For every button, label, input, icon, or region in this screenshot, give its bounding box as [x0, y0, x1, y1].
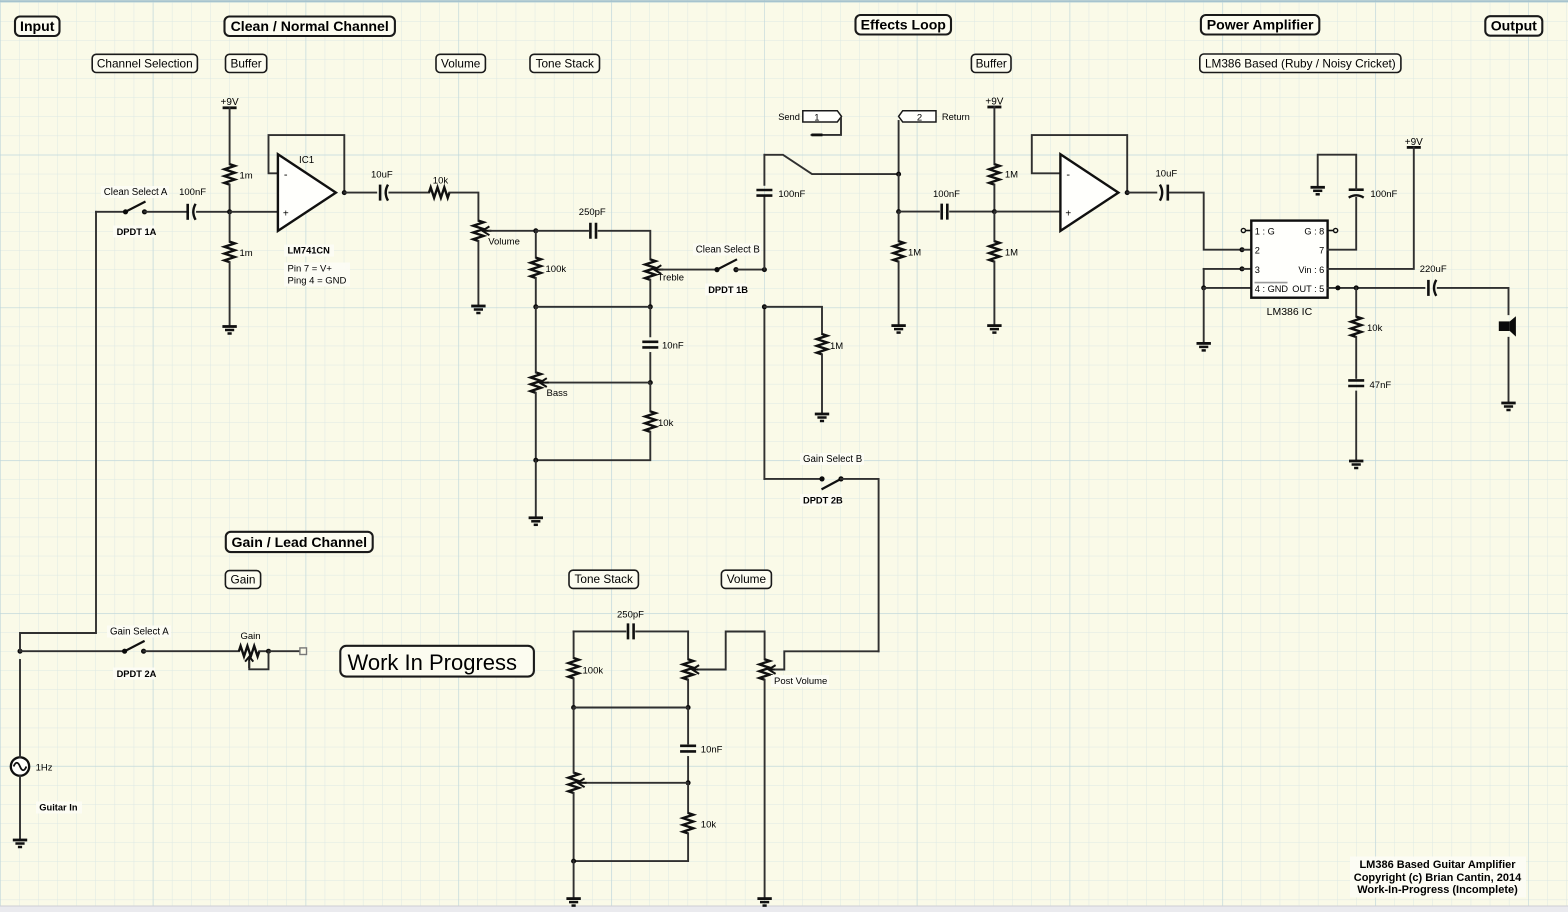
potentiometer Bass: [531, 372, 541, 392]
wire pin 4 lead: [1204, 287, 1252, 289]
IC LM386 body: [1251, 221, 1327, 298]
op-amp U2 (effects buffer): [1060, 154, 1118, 231]
node mid-left: [533, 304, 538, 309]
section label Tone Stack: [569, 570, 638, 588]
wire tap to R 1M: [764, 307, 822, 334]
capacitor 10uF (power coupling): [1167, 185, 1170, 201]
svg-text:LM386 Based Guitar Amplifier: LM386 Based Guitar Amplifier: [1359, 859, 1516, 871]
svg-text:DPDT 2B: DPDT 2B: [803, 496, 843, 506]
svg-text:Copyright (c) Brian Cantin, 20: Copyright (c) Brian Cantin, 2014: [1354, 872, 1522, 884]
pin label 4 : GND with overline: [1255, 282, 1288, 284]
svg-text:Volume: Volume: [727, 572, 767, 586]
switch DPDT 1A (Clean Select A): [126, 202, 146, 212]
svg-text:LM741CN: LM741CN: [288, 246, 331, 256]
svg-text:250pF: 250pF: [579, 207, 606, 218]
resistor 1m (lower bias): [224, 242, 234, 262]
wire bass node to R 10k: [649, 383, 651, 412]
voltage source V1 1Hz (Guitar In): [11, 757, 29, 775]
svg-text:Gain Select B: Gain Select B: [803, 454, 862, 465]
node mid-right: [648, 304, 653, 309]
wire pin 4 to ground: [1203, 288, 1205, 344]
svg-text:100nF: 100nF: [1370, 189, 1397, 200]
ground (zobel): [1349, 460, 1363, 463]
svg-text:1M: 1M: [830, 341, 843, 352]
svg-text:47nF: 47nF: [1370, 380, 1392, 391]
resistor 1M (bias upper): [989, 164, 999, 184]
switch DPDT 2A (Gain Select A): [125, 641, 145, 651]
potentiometer Bass (gain): [568, 773, 578, 793]
wire send rail to return junction: [764, 155, 898, 174]
node OUT b: [1354, 285, 1359, 290]
label Post Volume: [771, 675, 829, 687]
wire gain wiper loop: [249, 651, 268, 669]
svg-text:Output: Output: [1491, 18, 1537, 34]
speaker SP1: [1499, 321, 1510, 331]
wire op-amp2 feedback loop: [1032, 135, 1127, 193]
node input junction: [18, 649, 23, 654]
label Gain Select A: [107, 626, 171, 638]
ground (volume): [471, 305, 485, 308]
wire input to Clean Select A: [20, 212, 96, 651]
label LM741CN: [284, 245, 334, 257]
pin 1 open circle: [1246, 230, 1252, 232]
wire mid wiper to Post Volume top: [699, 632, 765, 670]
svg-text:Clean Select B: Clean Select B: [696, 245, 760, 256]
svg-text:100nF: 100nF: [179, 187, 206, 198]
svg-text:100nF: 100nF: [778, 189, 805, 200]
svg-text:Clean / Normal Channel: Clean / Normal Channel: [231, 18, 389, 34]
svg-text:Treble: Treble: [658, 273, 685, 284]
svg-text:100nF: 100nF: [933, 189, 960, 200]
svg-text:3: 3: [1255, 265, 1260, 275]
wire C 100nF to node: [763, 196, 765, 270]
svg-text:Input: Input: [20, 18, 55, 34]
wire rail to R 100k: [573, 631, 575, 658]
label DPDT 1B: [705, 284, 747, 296]
svg-text:10nF: 10nF: [701, 745, 723, 756]
wire Gain pot to node: [259, 650, 268, 652]
label Clean Select A: [101, 186, 169, 198]
svg-text:Guitar In: Guitar In: [39, 803, 78, 813]
wire OUT to R 10k: [1355, 288, 1357, 317]
node OUT a: [1335, 285, 1340, 290]
node buffer2 input: [992, 209, 997, 214]
wire OUT pin 5 to C 220uF: [1328, 287, 1425, 289]
wire C 100nF to ground bracket: [1318, 155, 1357, 190]
switch DPDT 1B (Clean Select B): [717, 259, 737, 269]
svg-text:G : 8: G : 8: [1304, 226, 1324, 236]
svg-text:+9V: +9V: [1405, 137, 1423, 148]
node return junction: [896, 172, 901, 177]
section label LM386 Based (Ruby / Noisy Cricket): [1200, 54, 1401, 73]
pin 8 open circle: [1328, 230, 1334, 232]
wire switch to C 100nF: [145, 211, 186, 213]
send port pin stub: [812, 133, 823, 136]
wire R 1M to ground: [898, 262, 900, 326]
wire R 10k to C 47nF: [1355, 337, 1357, 378]
label Pin 7 = V+: [284, 263, 350, 287]
wire pin 3 stub: [1242, 268, 1251, 270]
node bass wiper rail: [648, 380, 653, 385]
svg-text:Post Volume: Post Volume: [774, 676, 827, 687]
switch DPDT 2B (Gain Select B): [822, 479, 842, 490]
section label Tone Stack: [530, 54, 600, 72]
svg-text:DPDT 2A: DPDT 2A: [117, 669, 157, 679]
ground (bias): [987, 324, 1001, 327]
svg-text:2: 2: [917, 112, 922, 123]
wire return port down: [898, 121, 900, 174]
wire C 100nF to bias node: [950, 211, 994, 213]
svg-text:Bass: Bass: [547, 388, 568, 399]
svg-text:Work-In-Progress (Incomplete): Work-In-Progress (Incomplete): [1357, 884, 1518, 896]
+9V supply (effects buffer): [987, 106, 1001, 109]
label DPDT 1A: [113, 226, 155, 238]
svg-text:Buffer: Buffer: [230, 56, 261, 70]
wire Treble pot to mid node: [649, 280, 651, 307]
Work In Progress box: [340, 646, 534, 677]
wire node to R 1M: [898, 212, 900, 242]
wire R 1m to ground: [229, 262, 231, 326]
+9V supply (power amp): [1407, 146, 1421, 149]
ground (input): [13, 839, 27, 842]
svg-text:-: -: [284, 169, 288, 181]
svg-text:LM386 IC: LM386 IC: [1267, 306, 1313, 318]
capacitor 10nF (gain bass): [680, 746, 696, 752]
gain pot wiper arrow: [248, 657, 250, 668]
wire +9V to Vin pin 6: [1328, 147, 1414, 269]
node gain mid-right: [686, 705, 691, 710]
node gain out: [266, 649, 271, 654]
wire switch DPDT 1B to send node: [736, 269, 764, 271]
wire R 10k to bottom rail: [574, 833, 689, 861]
wire C 100nF to node: [197, 211, 230, 213]
label DPDT 2A: [113, 668, 155, 680]
svg-text:+: +: [1065, 208, 1071, 219]
svg-text:1m: 1m: [240, 248, 253, 259]
wire node to R 1m lower: [229, 212, 231, 242]
section label Effects Loop: [856, 15, 952, 35]
node IC1 output: [342, 190, 347, 195]
wire pin 3 to pin 4 rail: [1204, 268, 1242, 270]
svg-text:100k: 100k: [583, 666, 604, 677]
resistor 10k (zobel): [1351, 317, 1361, 337]
node tone stack bottom: [533, 458, 538, 463]
svg-text:Gain: Gain: [241, 631, 261, 642]
svg-text:Vin : 6: Vin : 6: [1298, 265, 1324, 275]
svg-text:250pF: 250pF: [617, 610, 644, 621]
capacitor 250pF (gain treble): [628, 623, 634, 639]
section label Volume: [721, 570, 771, 588]
wire Bass pot to bottom rail: [535, 393, 537, 460]
wire bottom rail to ground: [573, 861, 575, 899]
svg-text:Channel Selection: Channel Selection: [97, 56, 193, 70]
section label Power Amplifier: [1201, 15, 1319, 35]
wire C 100nF up to send rail: [763, 155, 765, 185]
wire to switch DPDT 1A: [96, 211, 126, 213]
wire node to C 250pF: [536, 230, 588, 232]
node gain tone bottom: [571, 859, 576, 864]
svg-text:1M: 1M: [1005, 170, 1018, 181]
wire input node to DPDT 2A: [20, 650, 125, 652]
svg-text:1m: 1m: [240, 171, 253, 182]
wire pin 2 stub: [1242, 249, 1251, 251]
svg-text:10k: 10k: [701, 820, 717, 831]
wire R 100k to node: [573, 678, 575, 707]
svg-text:IC1: IC1: [299, 155, 314, 166]
wire pin 7 to C 100nF: [1328, 198, 1357, 250]
node buffer input: [227, 209, 232, 214]
svg-text:Return: Return: [942, 112, 970, 122]
wire gain mid rail: [574, 707, 689, 709]
svg-text:Volume: Volume: [441, 56, 481, 70]
wire R 10k to Volume pot: [449, 193, 478, 221]
port flag 2 (Return): [899, 111, 936, 122]
resistor 1M (return load): [893, 241, 903, 261]
wire C 250pF to Treble pot: [599, 231, 651, 260]
capacitor 10nF (bass): [642, 342, 658, 348]
wire bias node to R 1M lower: [993, 212, 995, 242]
section label Clean / Normal Channel: [225, 17, 395, 37]
potentiometer Gain: [239, 646, 259, 656]
svg-text:4 : GND: 4 : GND: [1255, 284, 1289, 294]
node clean channel out: [762, 267, 767, 272]
wire switch to Gain pot: [144, 650, 239, 652]
wire op-amp2 out to C 10uF: [1127, 192, 1156, 194]
section label Gain: [225, 571, 260, 589]
node pin 3: [1240, 266, 1245, 271]
section label Buffer: [226, 54, 267, 72]
ground (post volume): [757, 897, 771, 900]
svg-text:1: 1: [814, 112, 819, 123]
svg-text:2: 2: [1255, 246, 1260, 256]
section label Buffer: [971, 54, 1011, 72]
node pin 4 ground rail: [1201, 285, 1206, 290]
svg-text:10k: 10k: [433, 175, 449, 186]
svg-text:10uF: 10uF: [371, 169, 393, 180]
svg-text:100k: 100k: [546, 264, 567, 275]
svg-text:DPDT 1A: DPDT 1A: [117, 227, 157, 237]
wire R 1m to node: [229, 185, 231, 212]
section label Channel Selection: [92, 54, 197, 72]
svg-text:Gain: Gain: [231, 572, 256, 586]
ground (channel load): [815, 413, 829, 416]
wire Volume pot to ground: [477, 241, 479, 306]
wire C 220uF to speaker: [1438, 288, 1509, 314]
svg-text:1M: 1M: [1005, 248, 1018, 259]
wire C 10nF to bass node: [649, 353, 651, 383]
potentiometer Volume (clean): [473, 221, 483, 241]
node return bias: [896, 209, 901, 214]
section label Volume: [436, 54, 485, 72]
svg-text:Buffer: Buffer: [976, 56, 1007, 70]
svg-text:Work In Progress: Work In Progress: [348, 650, 518, 675]
svg-text:10uF: 10uF: [1156, 169, 1178, 180]
svg-text:220uF: 220uF: [1420, 264, 1447, 275]
capacitor 100nF (bypass): [1349, 188, 1364, 191]
wire top rail to C 250pF: [574, 630, 626, 632]
wire C 250pF to right rail: [636, 630, 688, 632]
section label Gain / Lead Channel: [226, 532, 373, 552]
wire R 100k to mid node: [535, 278, 537, 307]
label Guitar In: [36, 802, 82, 814]
svg-text:Ping 4 = GND: Ping 4 = GND: [288, 276, 347, 287]
wire speaker to ground: [1508, 338, 1510, 403]
svg-text:1 : G: 1 : G: [1255, 226, 1275, 236]
svg-text:10k: 10k: [1367, 323, 1383, 334]
svg-text:DPDT 1B: DPDT 1B: [708, 285, 748, 295]
wire bias node to op-amp2 +: [994, 211, 1060, 213]
svg-text:Clean Select A: Clean Select A: [104, 187, 168, 198]
svg-text:-: -: [1066, 169, 1070, 181]
wire source to input node: [19, 660, 21, 757]
wire gain node to open terminal: [269, 650, 300, 652]
section label Input: [15, 17, 60, 37]
node op-amp2 output: [1125, 190, 1130, 195]
wire DPDT 2B to post volume: [841, 479, 879, 651]
+9V supply (buffer): [223, 106, 237, 109]
capacitor 100nF (send coupling): [756, 190, 772, 196]
wire R 1M to ground: [821, 354, 823, 414]
capacitor 250pF (treble): [590, 223, 596, 239]
ground (bypass): [1311, 186, 1325, 189]
wire C 10uF to LM386 pin 2: [1170, 193, 1242, 250]
wire send port lead: [812, 118, 842, 135]
wire R 1M to bias node: [993, 185, 995, 212]
ground (return): [891, 324, 905, 327]
wire R 1M to ground: [993, 262, 995, 326]
port flag 1 (Send): [803, 111, 842, 122]
svg-text:Effects Loop: Effects Loop: [861, 16, 947, 32]
ground (speaker): [1501, 402, 1515, 405]
wire Mid pot to node: [687, 680, 689, 708]
svg-text:10nF: 10nF: [662, 341, 684, 352]
svg-text:+9V: +9V: [221, 97, 239, 108]
potentiometer Treble: [645, 259, 655, 279]
wire mid rail: [536, 306, 651, 308]
wire IC1 output to C 10uF: [344, 192, 376, 194]
wire node to C 10nF: [687, 708, 689, 744]
wire bottom rail to ground: [535, 460, 537, 518]
wire node to C 100nF: [899, 211, 939, 213]
svg-text:1Hz: 1Hz: [36, 762, 53, 773]
wire Volume wiper to tone stack: [489, 230, 535, 232]
ground (LM386 pins 3-4): [1197, 342, 1211, 345]
wire +9V to R 1m: [229, 108, 231, 164]
node gain mid-left: [571, 705, 576, 710]
label Gain Select B: [800, 453, 864, 465]
svg-text:+: +: [283, 208, 289, 219]
wire Post Volume wiper to DPDT 2B: [776, 651, 879, 669]
wire return node down: [898, 174, 900, 212]
svg-text:Gain / Lead Channel: Gain / Lead Channel: [232, 534, 367, 550]
node effects send tap: [762, 304, 767, 309]
resistor 10k (tone bottom): [645, 411, 655, 431]
wire C 47nF to ground: [1355, 392, 1357, 461]
svg-text:Power Amplifier: Power Amplifier: [1207, 16, 1314, 32]
svg-text:Tone Stack: Tone Stack: [575, 572, 633, 586]
wire source to ground: [19, 776, 21, 840]
ground (gain tone stack): [566, 897, 580, 900]
wire gain bass wiper rail: [585, 782, 689, 784]
node gain bass rail: [686, 780, 691, 785]
wire mid node to Bass pot: [535, 307, 537, 373]
resistor 1M (bias lower): [989, 241, 999, 261]
svg-text:Tone Stack: Tone Stack: [536, 56, 594, 70]
potentiometer Post Volume: [759, 659, 769, 679]
resistor 100k (gain tone): [568, 658, 578, 678]
wire C 10nF to node: [687, 757, 689, 783]
resistor 1M (channel load): [817, 334, 827, 354]
wire to switch DPDT 2B: [764, 478, 822, 480]
svg-text:Gain Select A: Gain Select A: [110, 627, 169, 638]
capacitor 220uF (speaker coupling): [1427, 280, 1430, 296]
resistor 1m (upper bias): [224, 164, 234, 184]
capacitor 100nF (return coupling): [942, 204, 948, 220]
wire node to Bass pot: [573, 708, 575, 773]
capacitor 10uF (coupling): [379, 185, 382, 201]
wire rail to Mid pot: [687, 631, 689, 659]
node tone stack top-left: [533, 228, 538, 233]
wire bass wiper rail with arrow: [547, 382, 651, 384]
wire Treble wiper to switch: [661, 269, 717, 271]
label Clean Select B: [693, 244, 761, 256]
svg-text:10k: 10k: [658, 418, 674, 429]
label DPDT 2B: [800, 494, 842, 506]
resistor 10k (series): [429, 187, 449, 197]
svg-text:OUT : 5: OUT : 5: [1292, 284, 1324, 294]
wire bass node to R 10k: [687, 783, 689, 813]
svg-text:LM386 Based (Ruby / Noisy Cric: LM386 Based (Ruby / Noisy Cricket): [1205, 56, 1396, 70]
resistor 10k (gain tone bottom): [683, 813, 693, 833]
resistor 100k (tone): [531, 258, 541, 278]
ground (tone stack): [529, 516, 543, 519]
open terminal (unconnected): [300, 648, 307, 655]
wire node to R 100k: [535, 231, 537, 258]
svg-text:7: 7: [1319, 246, 1324, 256]
wire mid node to C 10nF: [649, 307, 651, 337]
wire Bass pot to bottom rail: [573, 793, 575, 861]
svg-text:Send: Send: [778, 112, 800, 122]
label footer title block: [1350, 857, 1526, 898]
section label Output: [1485, 16, 1542, 36]
node pin 2: [1240, 247, 1245, 252]
op-amp IC1 LM741CN: [278, 154, 336, 231]
capacitor 47nF (zobel): [1348, 380, 1364, 386]
ground (buffer bias): [222, 325, 236, 328]
svg-text:+9V: +9V: [985, 96, 1003, 107]
svg-text:Volume: Volume: [488, 237, 520, 248]
wire R 10k to bottom rail: [536, 432, 651, 460]
potentiometer Mid (gain): [683, 659, 693, 679]
svg-text:Pin 7 = V+: Pin 7 = V+: [288, 264, 333, 275]
wire Post Volume to ground: [764, 680, 766, 899]
wire pin3 down to pin4 node: [1203, 269, 1205, 288]
wire +9V to R 1M upper: [993, 107, 995, 164]
wire C 10uF to R 10k: [389, 192, 429, 194]
svg-text:1M: 1M: [908, 248, 921, 259]
wire IC1 feedback loop: [269, 135, 345, 193]
wire clean node down to DPDT 2B: [763, 307, 765, 479]
capacitor 100nF (clean input): [186, 204, 189, 220]
wire node to op-amp + input: [230, 211, 278, 213]
